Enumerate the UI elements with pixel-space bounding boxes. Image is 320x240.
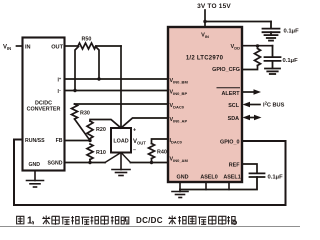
svg-text:R50: R50 <box>82 37 92 43</box>
pin FB <box>56 138 63 144</box>
pin VDAC0 <box>170 103 185 110</box>
svg-text:0.1μF: 0.1μF <box>284 29 300 35</box>
pin VIN0_BM <box>170 78 189 85</box>
caption glyph tu <box>17 216 24 224</box>
svg-text:LOAD: LOAD <box>113 139 128 145</box>
wire OUT to R50 <box>65 45 79 47</box>
svg-text:VIN0_BM: VIN0_BM <box>170 78 189 85</box>
caption glyph yong2 <box>209 216 216 224</box>
pin ALERT with overline <box>222 91 241 97</box>
capacitor C1 0.1uF <box>263 22 280 35</box>
svg-text:ALERT: ALERT <box>222 91 241 97</box>
wire chip GND stub <box>179 182 181 190</box>
svg-text:R20: R20 <box>96 127 106 133</box>
svg-text:VDD: VDD <box>230 44 240 51</box>
label C2 value <box>283 58 299 64</box>
caption glyph dian <box>101 216 108 224</box>
wire I- line to VIN0_BP <box>65 90 169 92</box>
caption glyph cai <box>42 216 50 225</box>
pin SDA <box>228 116 239 122</box>
wire ALERT arrow <box>242 89 261 94</box>
pin GND bottom <box>177 175 189 181</box>
svg-text:1/2 LTC2970: 1/2 LTC2970 <box>186 56 224 62</box>
wire load minus right diagonal <box>121 153 131 163</box>
wire SCL arrow <box>243 102 261 107</box>
label 1/2 LTC2970 <box>186 56 224 62</box>
wire kelvin tap left of R50 <box>75 47 79 91</box>
svg-text:GPIO_0: GPIO_0 <box>220 140 239 146</box>
node VDD junction <box>256 44 259 47</box>
pin VIN top <box>201 33 209 40</box>
wire ASEL1 stub <box>228 182 230 190</box>
pin GND <box>29 162 41 168</box>
resistor R40 <box>149 144 167 159</box>
caption glyph bu <box>71 216 79 224</box>
node FB junction <box>88 139 91 142</box>
node supply junction <box>203 20 206 23</box>
label C3 value <box>268 175 284 181</box>
svg-text:RUN/SS: RUN/SS <box>25 138 45 144</box>
svg-text:VDAC0: VDAC0 <box>170 103 185 110</box>
svg-text:VIN: VIN <box>201 33 209 40</box>
caption glyph wai <box>62 217 70 224</box>
svg-text:0.1μF: 0.1μF <box>268 175 284 181</box>
wire pullup to GPIO_CFG <box>242 66 258 70</box>
svg-text:ASEL0: ASEL0 <box>200 175 217 181</box>
svg-text:ASEL1: ASEL1 <box>223 175 240 181</box>
svg-text:VIN0_BP: VIN0_BP <box>170 90 188 97</box>
pin ASEL0 <box>200 175 217 181</box>
caption glyph de <box>121 217 129 224</box>
ground load <box>112 153 130 176</box>
svg-text:1: 1 <box>27 216 33 227</box>
node R40 rail junction <box>150 161 153 164</box>
label C1 value <box>284 29 300 35</box>
pin IN <box>25 45 31 51</box>
resistor R GPIO_CFG pullup <box>255 49 261 66</box>
DC/DC converter U2 box <box>23 38 65 171</box>
svg-text:IN: IN <box>25 45 31 51</box>
svg-text:GND: GND <box>29 162 41 168</box>
ground DC/DC <box>27 181 44 188</box>
node VOUT label <box>133 139 146 146</box>
wire R40 bottom <box>151 159 153 163</box>
svg-text:3V TO 15V: 3V TO 15V <box>197 3 231 10</box>
pin I+ <box>58 76 62 84</box>
wire DC/DC GND stub <box>34 171 36 181</box>
wire IDAC0 to R40 <box>152 139 169 144</box>
wire VDD branch <box>242 45 273 47</box>
junction tap left on I- line <box>73 89 76 92</box>
caption glyph yong <box>52 216 59 224</box>
pin SGND <box>48 161 63 167</box>
pin VIN0_AP <box>170 117 188 124</box>
svg-text:OUT: OUT <box>51 45 63 51</box>
capacitor C3 0.1uF <box>250 173 265 177</box>
svg-text:I2C BUS: I2C BUS <box>263 101 285 109</box>
wire VIN to DC/DC IN <box>17 45 23 47</box>
svg-text:SCL: SCL <box>228 103 239 109</box>
svg-text:CONVERTER: CONVERTER <box>27 107 61 113</box>
node VIN label <box>3 45 11 52</box>
pin IDAC0 <box>170 138 183 145</box>
wire load feed vertical <box>120 46 122 128</box>
label minus <box>133 148 136 154</box>
wire R30 to FB node diagonal <box>75 119 91 141</box>
wire R10 bottom <box>89 160 91 163</box>
caption comma <box>32 221 33 224</box>
svg-text:R30: R30 <box>80 111 90 117</box>
wire R50 to load feed corner <box>96 45 121 47</box>
wire GPIO_0 to RUN/SS loop <box>14 140 286 206</box>
svg-text:VIN0_AP: VIN0_AP <box>170 117 188 124</box>
pin SCL <box>228 103 239 109</box>
wire load minus left diagonal <box>105 153 121 163</box>
caption period <box>233 221 237 225</box>
pin ASEL1 <box>223 175 240 181</box>
caption glyph qi <box>189 216 196 224</box>
caption glyph huan <box>178 216 186 224</box>
pin REF <box>229 163 240 169</box>
wire REF to C3 <box>242 164 257 173</box>
label DC/DC CONVERTER <box>27 101 61 113</box>
wire I+ line to VIN0_BM <box>65 78 169 80</box>
pin VIN0_AM <box>170 157 189 164</box>
caption glyph zu <box>111 216 119 224</box>
resistor R30 <box>72 104 90 119</box>
pin OUT <box>51 45 63 51</box>
wire SDA arrow <box>243 115 262 120</box>
resistor R50 <box>78 37 96 50</box>
svg-text:REF: REF <box>229 163 240 169</box>
wire AM rail to chip <box>131 162 169 164</box>
node 3V TO 15V label <box>197 3 231 10</box>
svg-text:R10: R10 <box>96 150 106 156</box>
rule bottom <box>0 226 300 228</box>
svg-text:DC/DC: DC/DC <box>136 216 163 225</box>
svg-text:R40: R40 <box>157 150 167 156</box>
capacitor C2 0.1uF <box>265 46 281 69</box>
svg-text:SDA: SDA <box>228 116 239 122</box>
caption glyph fan <box>81 217 89 224</box>
svg-text:0.1μF: 0.1μF <box>283 58 299 64</box>
wire C3 bottom to ground rail <box>180 177 257 190</box>
ground C1 <box>265 35 278 41</box>
caption glyph kui <box>91 216 99 224</box>
wire VIN0_AP sense <box>121 118 168 128</box>
caption glyph lu <box>227 216 235 224</box>
pin VDD <box>230 44 240 51</box>
svg-text:GPIO_CFG: GPIO_CFG <box>212 67 240 73</box>
wire R20 top to load + <box>90 120 121 129</box>
wire VDAC0 line <box>75 103 169 105</box>
caption glyph ying <box>198 217 206 224</box>
wire FB <box>65 140 91 142</box>
wire SGND rail <box>65 162 106 164</box>
wire supply branch to C1 <box>205 21 271 23</box>
pin RUN/SS <box>25 138 45 144</box>
svg-text:VOUT: VOUT <box>133 139 146 146</box>
op-amp U1 LTC2970 body <box>168 27 242 182</box>
wire ASEL0 stub <box>205 182 207 190</box>
node R10 ground junction <box>88 161 91 164</box>
ground C2 <box>265 69 280 75</box>
pin I- <box>58 88 62 96</box>
pin VIN0_BP <box>170 90 188 97</box>
svg-text:–: – <box>133 148 136 154</box>
wire kelvin tap right of R50 <box>96 47 100 80</box>
svg-text:FB: FB <box>56 138 63 144</box>
label I2C BUS <box>263 101 285 109</box>
resistor R10 <box>87 144 106 160</box>
svg-text:VIN: VIN <box>3 45 11 52</box>
caption glyph dian2 <box>219 216 226 224</box>
svg-text:VIN0_AM: VIN0_AM <box>170 157 189 164</box>
resistor R20 <box>87 121 106 139</box>
label LOAD <box>113 139 128 145</box>
svg-text:+: + <box>133 128 136 134</box>
pin GPIO_0 <box>220 140 239 146</box>
wire supply to chip VIN <box>204 10 206 27</box>
junction tap right on I+ line <box>97 77 100 80</box>
ground chip GND <box>172 190 188 198</box>
svg-text:IDAC0: IDAC0 <box>170 138 183 145</box>
load LD1 box <box>111 128 131 153</box>
pin GPIO_CFG <box>212 67 240 73</box>
svg-text:SGND: SGND <box>48 161 63 167</box>
svg-text:GND: GND <box>177 175 189 181</box>
label plus <box>133 128 136 134</box>
caption glyph zhuan <box>168 216 176 225</box>
